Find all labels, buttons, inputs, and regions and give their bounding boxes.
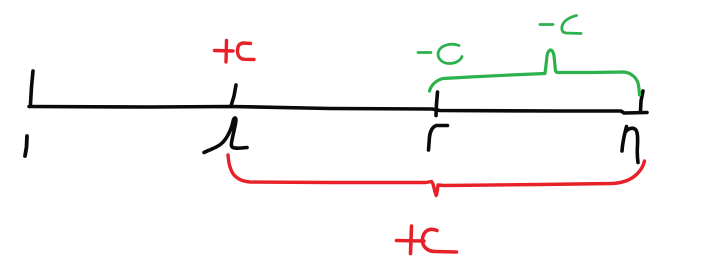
tick r xyxy=(436,92,438,116)
red +c label top xyxy=(215,41,255,63)
red brace l to n xyxy=(228,155,645,196)
tick n xyxy=(641,91,644,111)
tick 1 xyxy=(31,71,34,104)
label l xyxy=(204,118,247,153)
label r xyxy=(429,126,448,151)
label 1 xyxy=(25,136,27,156)
label n xyxy=(622,127,638,163)
number line xyxy=(29,107,647,114)
green -c label top xyxy=(540,16,581,34)
green brace r to n xyxy=(430,50,640,95)
tick l xyxy=(231,85,236,106)
red +c label bottom xyxy=(397,226,457,254)
green -c label left xyxy=(418,44,462,63)
